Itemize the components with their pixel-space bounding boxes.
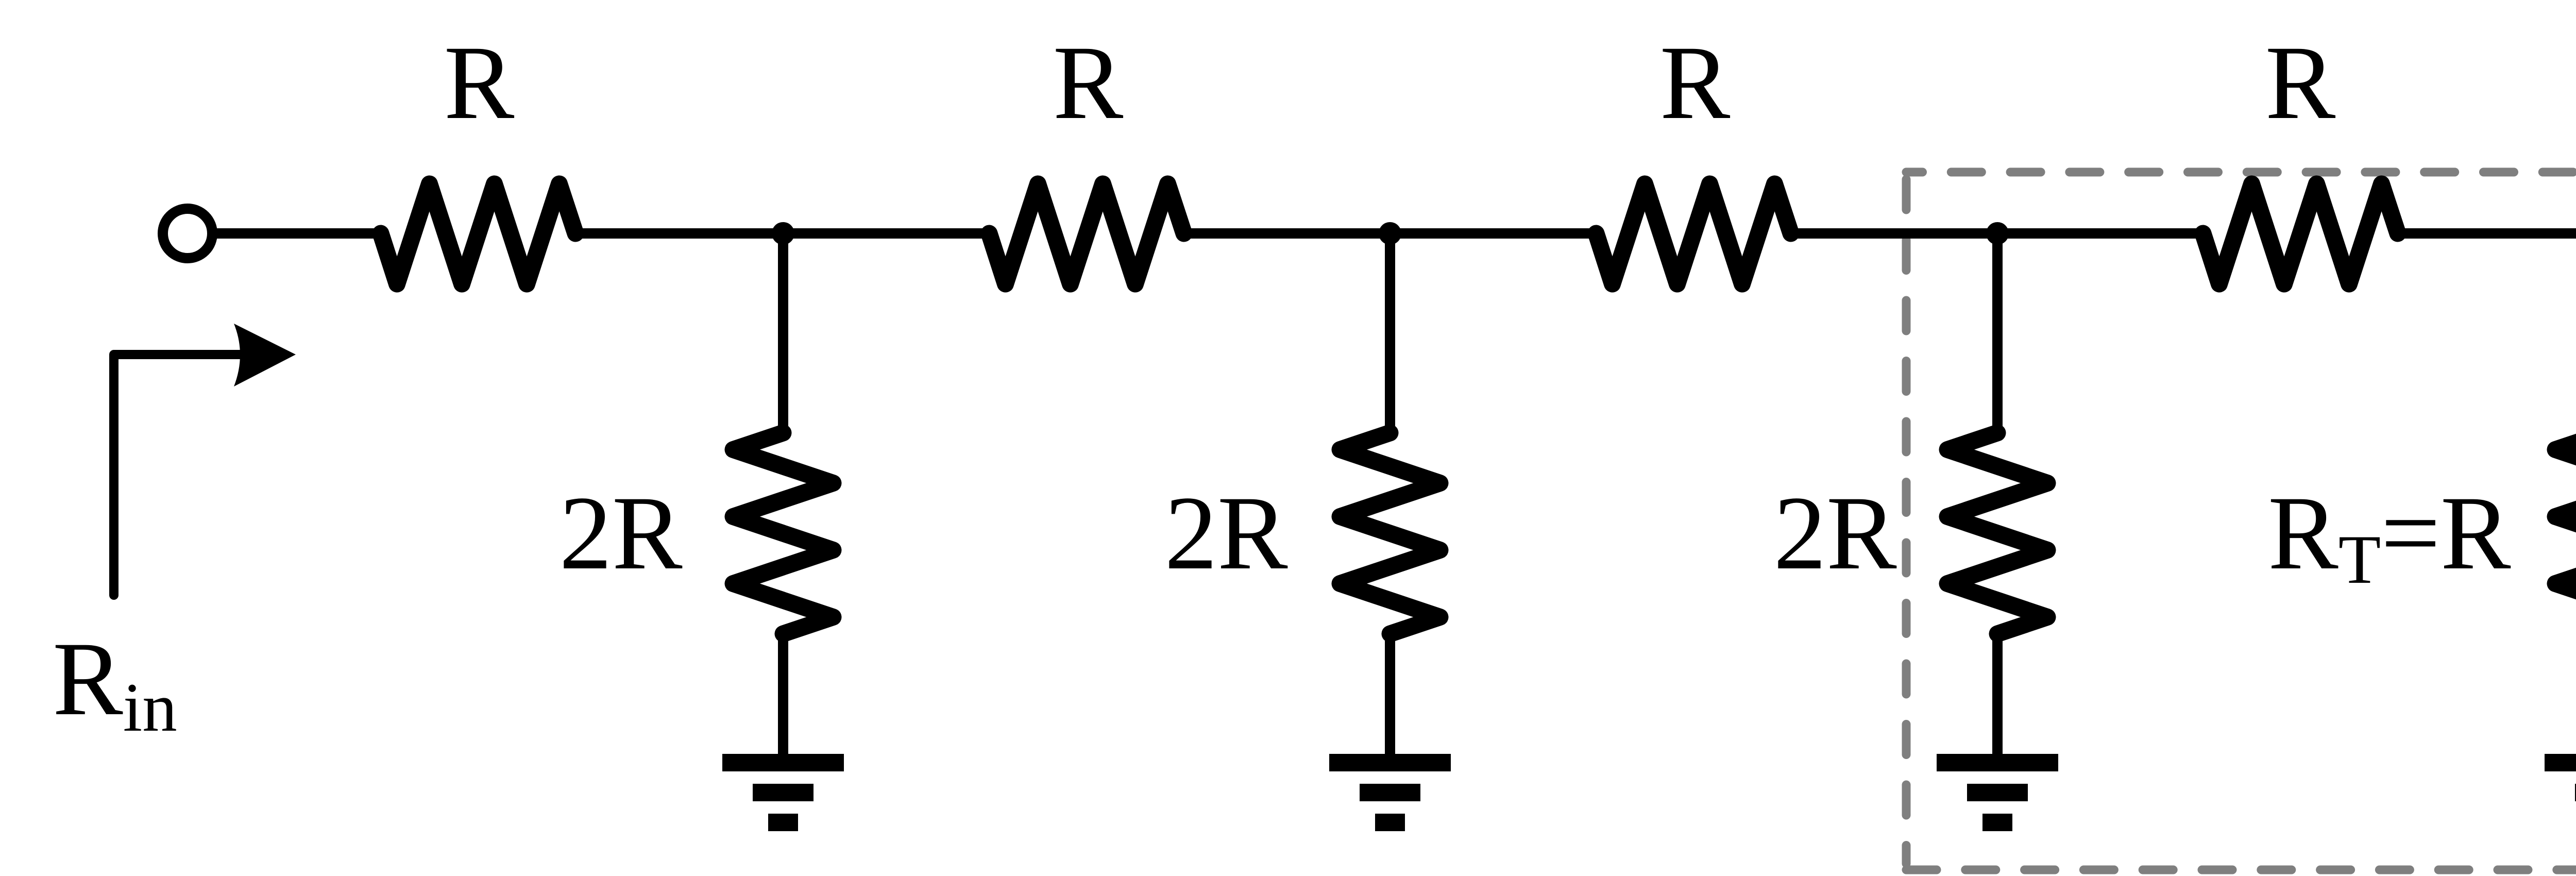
- ground 3: [1937, 754, 2058, 831]
- svg-text:R: R: [1053, 24, 1124, 141]
- wire terminal to R1: [216, 228, 381, 239]
- svg-text:R: R: [1660, 24, 1731, 141]
- node B junction dot: [1379, 222, 1401, 245]
- node C junction dot: [1986, 222, 2009, 245]
- svg-text:2R: 2R: [559, 475, 683, 592]
- wire R2 to R3 through node B: [1184, 228, 1596, 239]
- input resistance arrow: [114, 324, 296, 595]
- resistor R3: [1596, 184, 1791, 284]
- wire node B down: [1385, 233, 1395, 434]
- ground 1: [722, 754, 844, 831]
- svg-text:RT=R: RT=R: [2268, 475, 2511, 598]
- wire to ground 1: [778, 634, 788, 757]
- svg-text:2R: 2R: [1773, 475, 1897, 592]
- resistor R2: [989, 184, 1184, 284]
- resistor RT (termination): [2555, 433, 2576, 634]
- wire to ground 3: [1992, 634, 2003, 757]
- resistor 2R (second branch): [1340, 433, 1440, 634]
- wire node A down: [778, 233, 788, 434]
- wire R4 to RT corner: [2398, 233, 2576, 433]
- svg-text:R: R: [2265, 24, 2336, 141]
- ground 2: [1329, 754, 1451, 831]
- ground 4: [2545, 754, 2576, 831]
- node A junction dot: [772, 222, 794, 245]
- wire to ground 2: [1385, 634, 1395, 757]
- resistor R1: [381, 184, 575, 284]
- wire R1 to R2 through node A: [575, 228, 989, 239]
- svg-text:2R: 2R: [1164, 475, 1288, 592]
- dashed box (ladder termination section): [1906, 172, 2576, 870]
- svg-text:R: R: [444, 24, 515, 141]
- resistor 2R (third branch): [1947, 433, 2047, 634]
- resistor 2R (first branch): [733, 433, 833, 634]
- input terminal: [163, 209, 212, 258]
- wire R3 to R4 through node C: [1791, 228, 2203, 239]
- wire node C down: [1992, 233, 2003, 434]
- resistor R4: [2203, 184, 2398, 284]
